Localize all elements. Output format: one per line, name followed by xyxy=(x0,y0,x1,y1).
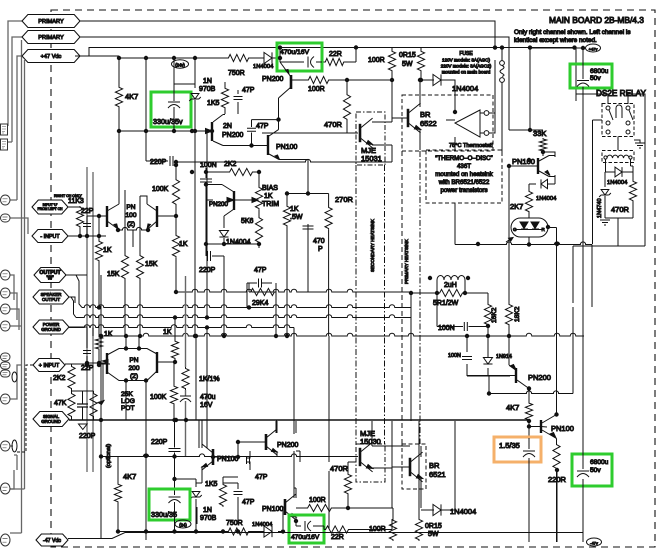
transistor PN200 bottom xyxy=(265,434,268,450)
highlight green box 470u/16V top xyxy=(277,43,322,71)
resistor 470R relay xyxy=(629,180,636,202)
svg-text:P: P xyxy=(318,246,323,253)
svg-text:100: 100 xyxy=(125,212,136,219)
svg-text:15030: 15030 xyxy=(360,437,381,446)
connector POWER GROUND xyxy=(33,320,69,334)
svg-text:1N4004: 1N4004 xyxy=(536,196,557,202)
wire zener chain down xyxy=(194,131,196,336)
resistor 100K lower xyxy=(170,385,177,405)
svg-text:with BR6521/6522: with BR6521/6522 xyxy=(438,179,490,186)
svg-text:220P: 220P xyxy=(150,159,167,166)
svg-text:5K6: 5K6 xyxy=(241,218,254,225)
svg-text:SECONDARY HEATSINK: SECONDARY HEATSINK xyxy=(370,218,375,272)
opto arrow xyxy=(506,238,513,243)
svg-text:1K5: 1K5 xyxy=(205,481,218,488)
wire pair collectors xyxy=(119,131,140,254)
svg-text:6522: 6522 xyxy=(420,119,437,128)
capacitor 470u/16V lower (polarized) xyxy=(180,395,191,397)
capacitor 470u/16V top xyxy=(300,61,322,63)
svg-text:+47 Vdc: +47 Vdc xyxy=(41,54,62,60)
wire harness from PRIMARY 2 xyxy=(2,37,22,142)
bus line y317.5 xyxy=(76,315,411,318)
heatsink dash-dot line primary xyxy=(419,151,421,444)
transistor BR6521 xyxy=(409,458,412,476)
svg-text:1K: 1K xyxy=(264,193,273,200)
resistor 2K2 lower xyxy=(68,365,75,390)
svg-text:+47v: +47v xyxy=(589,46,598,51)
svg-text:identical except where noted.: identical except where noted. xyxy=(514,37,597,44)
svg-text:47P: 47P xyxy=(242,87,255,94)
relay wires xyxy=(576,94,645,246)
opto LED indicator xyxy=(511,218,548,237)
svg-text:50v: 50v xyxy=(590,75,601,82)
edge connector tag 2 xyxy=(1,214,11,222)
resistor 16K2 xyxy=(484,303,491,326)
svg-text:5W: 5W xyxy=(402,61,413,68)
diode 1N4004 mid2 xyxy=(219,231,228,238)
rail y162 xyxy=(177,159,392,162)
node oval (24v) top xyxy=(172,60,189,68)
resistor 22R top xyxy=(324,58,345,65)
svg-text:18K2: 18K2 xyxy=(514,306,521,322)
svg-text:1N4004: 1N4004 xyxy=(607,180,628,186)
svg-text:2uH: 2uH xyxy=(444,282,457,289)
svg-text:470u/16V: 470u/16V xyxy=(291,534,320,541)
svg-text:TRIM: TRIM xyxy=(262,201,279,208)
svg-text:220V models: 3A(AGC2): 220V models: 3A(AGC2) xyxy=(441,64,492,69)
wire harness from +47 Vdc xyxy=(10,56,22,200)
svg-text:120V models: 3A(AGC): 120V models: 3A(AGC) xyxy=(442,58,490,63)
svg-text:1N914: 1N914 xyxy=(496,354,512,360)
edge connector tag 9 xyxy=(1,370,11,377)
capacitor 47P (top) xyxy=(237,90,239,114)
diode 1N4004 bottom right xyxy=(433,504,441,515)
svg-text:100R: 100R xyxy=(309,497,326,504)
wire bottom rails xyxy=(199,420,266,457)
capacitor 470P mid xyxy=(307,224,309,292)
resistor 750R bottom xyxy=(227,528,250,535)
resistor 18K2 xyxy=(505,303,512,326)
svg-text:POT: POT xyxy=(121,405,135,412)
thermostat contact circles xyxy=(484,111,489,116)
heatsink box MJE15031 xyxy=(356,112,385,165)
resistor 5K6 xyxy=(255,216,262,244)
resistor 15K a xyxy=(121,254,128,280)
svg-text:PN: PN xyxy=(129,357,138,364)
wire +input row xyxy=(65,363,107,364)
wire fuse down xyxy=(501,82,503,130)
svg-text:33K: 33K xyxy=(533,129,546,138)
svg-text:100K: 100K xyxy=(150,394,167,401)
transistor PN100 right xyxy=(537,158,539,174)
svg-text:1K: 1K xyxy=(179,241,188,248)
node oval +47v xyxy=(530,47,581,49)
svg-text:“THERMO–O–DISC”: “THERMO–O–DISC” xyxy=(435,155,492,162)
wires mje15030 xyxy=(372,421,410,468)
inductor 2uH xyxy=(437,276,465,281)
relay contacts xyxy=(606,106,610,110)
svg-text:220P: 220P xyxy=(151,439,168,446)
zener 1N4740 xyxy=(604,176,606,218)
wire speaker/power rows xyxy=(65,236,87,327)
transistor PN200 top xyxy=(280,47,301,77)
svg-text:1N: 1N xyxy=(203,507,212,514)
svg-text:0R15: 0R15 xyxy=(425,523,442,530)
transistor pair PN200(2) xyxy=(107,352,157,374)
relay coil dashed box xyxy=(602,151,634,163)
heatsink dash-dot line secondary xyxy=(384,165,386,444)
svg-text:OUTPUT: OUTPUT xyxy=(42,297,60,302)
thermo dashed box xyxy=(426,150,502,203)
resistor 0R15 5W bottom xyxy=(415,518,422,541)
resistor 5R1/2W xyxy=(438,289,464,296)
svg-text:(2): (2) xyxy=(127,221,135,228)
svg-text:1.5/35: 1.5/35 xyxy=(499,441,520,450)
transistor PN200 mid2 xyxy=(233,191,235,210)
wire speaker elbow xyxy=(69,297,76,318)
highlight green box 6800u bottom xyxy=(572,454,612,486)
transistor PN100 bottom xyxy=(212,449,215,465)
wire lower mid rail xyxy=(101,454,358,457)
bus line y336 ground xyxy=(101,333,584,336)
resistor 33K xyxy=(539,138,546,152)
heatsink dashed box BR6522 xyxy=(402,95,493,151)
transistor PN100 bottom2 xyxy=(284,499,287,515)
bus line y292 feedback xyxy=(176,289,411,292)
connector INPUT U FROM LEFT CH xyxy=(32,200,68,214)
wire misc xyxy=(87,131,207,336)
svg-text:PRIMARY HEATSINK: PRIMARY HEATSINK xyxy=(404,238,409,284)
capacitor 100N xyxy=(205,168,207,244)
svg-text:mounted on heatsink: mounted on heatsink xyxy=(435,171,493,178)
heatsink dash-dot line secondary b xyxy=(355,165,357,444)
resistor 1K .5W mid xyxy=(283,205,290,227)
bias trim pot xyxy=(255,186,262,210)
heatsink dashed line preamp xyxy=(401,151,403,444)
capacitor 47P bottom a xyxy=(246,451,250,470)
edge connector tag 5 xyxy=(1,304,11,314)
resistor 1K feedback xyxy=(172,234,179,258)
resistor 11K3 xyxy=(76,206,83,228)
svg-text:1K: 1K xyxy=(104,331,113,338)
diode 1N4004 bottom xyxy=(264,526,272,537)
svg-text:100R: 100R xyxy=(369,526,386,533)
diode 1N4004 right xyxy=(541,179,548,188)
svg-text:15K: 15K xyxy=(107,271,120,278)
wire -input row xyxy=(68,235,106,237)
svg-text:436T: 436T xyxy=(457,163,471,170)
capacitor 6800u/50v top xyxy=(582,48,584,423)
highlight orange box 1.5/35 xyxy=(494,437,541,462)
svg-text:6521: 6521 xyxy=(429,470,446,479)
svg-text:- INPUT: - INPUT xyxy=(40,234,60,240)
svg-text:2K2: 2K2 xyxy=(224,161,237,168)
svg-text:970B: 970B xyxy=(200,515,217,522)
svg-text:+ INPUT: + INPUT xyxy=(39,363,60,369)
heatsink dashed box BR6521 xyxy=(402,444,426,489)
svg-text:(optional): (optional) xyxy=(106,444,112,468)
capacitor 6800u/50v bottom xyxy=(582,423,584,542)
wire opto bus row xyxy=(455,242,592,245)
svg-text:22R: 22R xyxy=(329,51,342,58)
connector ellipse b xyxy=(12,440,17,452)
capacitor 1.5/35 xyxy=(528,438,530,542)
svg-text:1K: 1K xyxy=(103,247,112,254)
svg-text:1N4740: 1N4740 xyxy=(597,198,603,218)
bus line y307.5 xyxy=(82,305,411,308)
resistor 220R br xyxy=(553,443,560,470)
svg-text:2N: 2N xyxy=(223,123,232,130)
wire bus336 tap xyxy=(195,336,197,420)
svg-text:270R: 270R xyxy=(335,195,354,204)
edge connector tag 4 xyxy=(1,288,11,298)
wire mje base xyxy=(262,132,358,134)
resistor 15K b xyxy=(136,254,143,280)
capacitor 47P feedback xyxy=(247,282,272,284)
resistor 1K/1% xyxy=(182,367,189,390)
transistor MJE15030 xyxy=(359,448,362,466)
wire right mid verticals xyxy=(502,130,555,303)
zener diode 1N970B (top) xyxy=(191,94,199,100)
wire harness trunk b xyxy=(10,60,25,489)
resistor 4K7 br xyxy=(525,402,532,421)
wire harness trunk a xyxy=(10,40,22,533)
svg-text:FROM LEFT CH: FROM LEFT CH xyxy=(38,207,64,211)
wire opto left xyxy=(454,137,456,245)
wire output elbow xyxy=(66,275,82,308)
wires thermostat xyxy=(392,60,495,133)
svg-text:330u/35: 330u/35 xyxy=(151,510,177,519)
svg-text:4K7: 4K7 xyxy=(123,472,136,481)
svg-text:1K: 1K xyxy=(163,329,172,336)
svg-text:-47 Vdc: -47 Vdc xyxy=(43,538,61,544)
svg-text:750R: 750R xyxy=(226,520,243,527)
highlight green box 330u/35v xyxy=(151,92,191,127)
svg-text:BIAS: BIAS xyxy=(262,185,278,192)
capacitor 47P bottom b xyxy=(237,483,239,510)
svg-text:100R: 100R xyxy=(308,86,325,93)
svg-text:47P: 47P xyxy=(242,499,255,506)
svg-text:100N: 100N xyxy=(438,325,455,332)
svg-text:1N4004: 1N4004 xyxy=(450,507,476,516)
svg-text:1N4004: 1N4004 xyxy=(252,522,273,528)
svg-text:1K/1%: 1K/1% xyxy=(199,376,220,383)
resistor 1K right lower xyxy=(171,340,178,360)
connector SIGNAL GROUND xyxy=(33,412,69,427)
ground marker 220P xyxy=(79,424,88,430)
connector OUTPUT W xyxy=(34,268,66,283)
resistor 1K5 (top) xyxy=(221,87,228,109)
resistor 470R upper xyxy=(343,93,350,121)
resistor 100R bottom2 xyxy=(389,519,396,541)
svg-text:FUSE: FUSE xyxy=(459,51,473,57)
svg-text:PRIMARY: PRIMARY xyxy=(38,35,64,41)
resistor 2K2 mid xyxy=(228,168,254,175)
edge connector tag 1 xyxy=(1,195,11,205)
relay contact box xyxy=(602,104,634,137)
svg-text:75°C Thermostat!: 75°C Thermostat! xyxy=(449,143,493,149)
relay armature xyxy=(616,105,622,118)
node oval (24) bottom xyxy=(175,520,191,528)
svg-text:PN100: PN100 xyxy=(551,424,574,433)
svg-text:PN100: PN100 xyxy=(262,506,284,513)
diode 1N914 xyxy=(483,358,492,365)
resistor 22R bottom xyxy=(324,526,350,533)
svg-text:1N4004: 1N4004 xyxy=(226,239,251,246)
svg-text:0R15: 0R15 xyxy=(399,52,416,59)
svg-text:470u/16V: 470u/16V xyxy=(280,49,310,56)
capacitor 22P lower xyxy=(86,336,88,363)
wire verticals from top rail xyxy=(119,58,207,203)
edge connector tag 3 xyxy=(1,270,11,280)
wire primary rail 2 xyxy=(80,37,530,130)
svg-text:470R: 470R xyxy=(330,464,349,473)
svg-text:100N: 100N xyxy=(200,162,217,169)
transistor PN100 br xyxy=(540,420,542,433)
resistor 0R15 5W top xyxy=(417,50,424,72)
svg-text:2K7: 2K7 xyxy=(510,202,523,211)
wire center verticals xyxy=(206,200,276,448)
wire relay drop xyxy=(573,246,645,252)
svg-text:'W': 'W' xyxy=(46,276,53,282)
svg-text:-47v: -47v xyxy=(590,540,598,545)
svg-text:330u/35v: 330u/35v xyxy=(153,117,183,126)
capacitor 22P upper xyxy=(86,216,88,236)
svg-text:1N4004: 1N4004 xyxy=(253,64,274,70)
resistor 1K lower left xyxy=(95,336,102,350)
svg-text:16V: 16V xyxy=(200,402,213,409)
svg-text:6800u: 6800u xyxy=(590,68,609,75)
resistor 100R bottom mid xyxy=(306,504,333,511)
svg-text:LOG: LOG xyxy=(121,398,135,405)
svg-text:47P: 47P xyxy=(255,474,268,481)
svg-text:15K: 15K xyxy=(145,261,158,268)
svg-text:PN100: PN100 xyxy=(217,456,239,463)
edge connector tag 12 xyxy=(1,483,11,494)
thermostat triangle xyxy=(455,110,480,137)
svg-text:(2): (2) xyxy=(130,373,138,380)
dashed input wire xyxy=(16,365,33,452)
svg-text:4K7: 4K7 xyxy=(125,92,138,101)
diode 1N4004 top xyxy=(264,52,272,63)
svg-text:PN100: PN100 xyxy=(512,157,535,166)
connector +47 Vdc xyxy=(22,50,80,63)
ground below zener xyxy=(600,220,610,225)
resistor 100K left xyxy=(172,178,179,206)
transistor BR6522 xyxy=(407,109,410,127)
svg-text:PRIMARY: PRIMARY xyxy=(38,19,64,25)
resistor 750R (top) xyxy=(227,54,250,61)
svg-text:1N: 1N xyxy=(203,78,212,85)
svg-text:100R: 100R xyxy=(368,57,385,64)
zener 1N970B bottom xyxy=(192,492,200,498)
connector ellipse a xyxy=(12,372,17,382)
svg-text:PN200: PN200 xyxy=(528,373,551,382)
transistor pair PN100(2) xyxy=(107,206,157,227)
svg-text:47K: 47K xyxy=(54,400,67,407)
svg-text:(24v): (24v) xyxy=(175,62,185,67)
svg-text:PN: PN xyxy=(126,204,135,211)
svg-text:GROUND: GROUND xyxy=(41,327,61,332)
wires mje collector emitter xyxy=(372,122,392,145)
svg-text:1K: 1K xyxy=(290,206,299,213)
svg-text:970B: 970B xyxy=(199,86,216,93)
connector PRIMARY 2 xyxy=(22,31,80,44)
capacitor 220P mid xyxy=(206,244,224,336)
connector + INPUT xyxy=(33,359,65,372)
resistor 1K input xyxy=(95,240,102,262)
svg-text:power transistors: power transistors xyxy=(440,187,487,194)
transistor MJE15031 xyxy=(359,124,362,142)
svg-text:GROUND: GROUND xyxy=(41,419,61,424)
svg-text:29K4: 29K4 xyxy=(252,300,268,307)
wire harness stadium2 link xyxy=(9,218,28,234)
wire pg bus corner down xyxy=(293,328,295,435)
svg-text:G: G xyxy=(513,227,517,232)
wire primary rail 1 xyxy=(80,21,495,48)
edge connector tag 8 xyxy=(1,362,11,369)
connector PRIMARY 1 xyxy=(22,15,80,28)
wire +47 top rail xyxy=(75,48,576,102)
connector -47 Vdc xyxy=(36,534,68,546)
wire gray signal trunk xyxy=(185,276,187,457)
highlight green box 6800u top xyxy=(570,64,612,88)
wire long vertical x87 xyxy=(86,167,88,472)
edge connector tag 7 xyxy=(1,353,11,361)
capacitor 47P mid xyxy=(252,120,279,146)
edge connector tag 13 xyxy=(1,534,11,546)
svg-text:1N4004: 1N4004 xyxy=(452,84,478,93)
heatsink box MJE15030 xyxy=(356,444,385,482)
svg-text:16K2: 16K2 xyxy=(491,307,498,323)
svg-text:470R: 470R xyxy=(611,205,630,214)
capacitor 220P bottom-left xyxy=(169,449,181,452)
transistor PN200 br xyxy=(515,368,517,383)
svg-text:PN200: PN200 xyxy=(277,442,299,449)
capacitor 330u/35 bottom xyxy=(175,479,197,532)
wire pot junction xyxy=(72,391,94,420)
svg-text:6800u: 6800u xyxy=(590,459,609,466)
capacitor 100N small xyxy=(462,357,472,360)
svg-text:(24): (24) xyxy=(179,522,187,527)
svg-text:MAIN BOARD 2B-MB/4.3: MAIN BOARD 2B-MB/4.3 xyxy=(549,15,644,25)
wire emitter rail pair xyxy=(118,227,148,230)
wire rail y393.5 xyxy=(489,391,573,394)
resistor 4K7 bottom-left xyxy=(114,483,121,503)
diode 1N4004 mid xyxy=(433,74,441,85)
svg-text:47P: 47P xyxy=(256,123,269,130)
svg-text:Only right channel shown. Left: Only right channel shown. Left channel i… xyxy=(514,29,631,36)
connector SPEAKER OUTPUT xyxy=(33,290,69,304)
svg-text:PN200: PN200 xyxy=(222,132,244,139)
svg-text:1K5: 1K5 xyxy=(207,100,220,107)
capacitor 470u/16V bottom xyxy=(296,517,324,530)
svg-text:PN200: PN200 xyxy=(209,201,228,208)
svg-text:BR: BR xyxy=(429,461,440,470)
capacitor 100N out xyxy=(437,293,488,327)
capacitor 330u/35v xyxy=(174,58,195,131)
svg-text:PN100: PN100 xyxy=(276,144,298,151)
bus line y327.5 power ground xyxy=(69,325,294,328)
svg-text:100K: 100K xyxy=(152,186,169,193)
pot wiper resistor 25K xyxy=(90,392,97,418)
relay ground xyxy=(634,140,640,143)
resistor 100R top-rail vertical xyxy=(388,50,395,72)
svg-text:470R: 470R xyxy=(324,120,343,129)
highlight green box 470u/16V bottom xyxy=(289,515,324,543)
wire harness lower links xyxy=(10,275,22,489)
fuse symbol xyxy=(500,61,505,66)
